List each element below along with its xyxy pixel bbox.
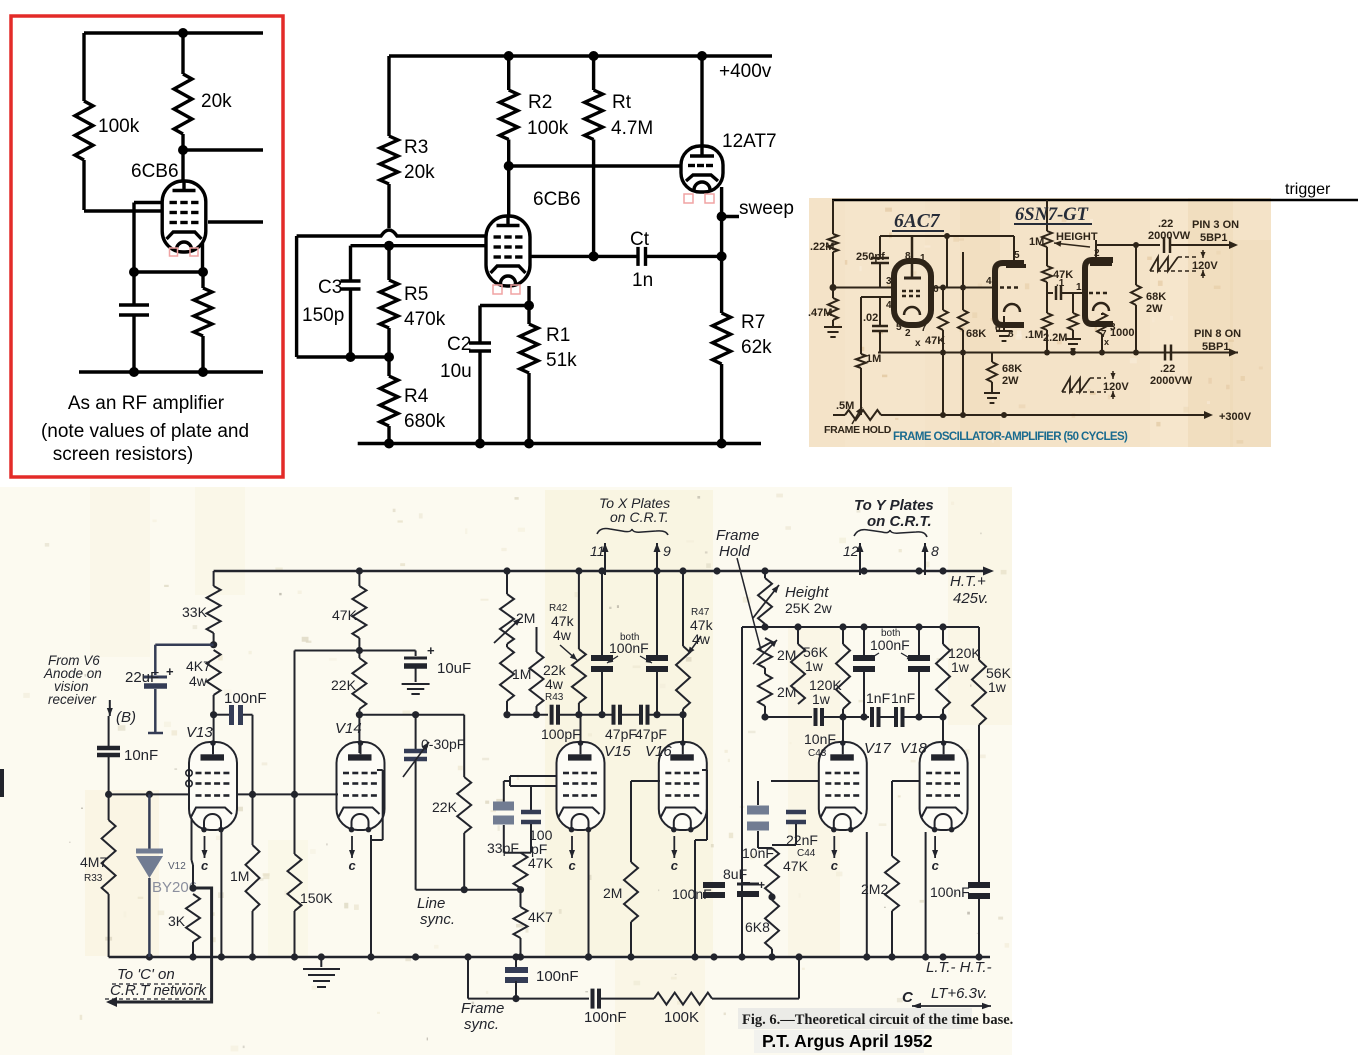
svg-text:LT+6.3v.: LT+6.3v. [931,985,988,1002]
svg-text:.22: .22 [1160,363,1175,375]
svg-text:22uF: 22uF [125,669,159,686]
svg-text:.22: .22 [1158,218,1173,230]
svg-text:R4: R4 [404,386,429,407]
svg-text:100nF: 100nF [870,637,910,653]
svg-text:2000VW: 2000VW [1148,230,1191,242]
svg-text:10uF: 10uF [437,660,471,677]
svg-text:1w: 1w [812,691,831,707]
svg-text:62k: 62k [741,337,772,358]
svg-text:Ct: Ct [630,229,650,250]
svg-text:x: x [915,338,921,349]
svg-text:9: 9 [663,543,671,559]
svg-text:4M7: 4M7 [80,854,107,870]
svg-text:6SN7-GT: 6SN7-GT [1015,205,1089,225]
svg-text:425v.: 425v. [953,590,989,607]
svg-text:20k: 20k [404,162,435,183]
svg-text:V14: V14 [335,720,362,737]
svg-text:1w: 1w [805,658,824,674]
svg-text:2000VW: 2000VW [1150,375,1193,387]
svg-text:11: 11 [590,543,605,559]
svg-text:receiver: receiver [48,692,97,707]
svg-text:6K8: 6K8 [745,919,770,935]
svg-text:c: c [349,858,357,873]
svg-text:100pF: 100pF [541,726,581,742]
svg-text:2W: 2W [1002,375,1019,387]
svg-text:1: 1 [1076,282,1082,293]
svg-text:12: 12 [843,543,859,559]
svg-text:L.T.- H.T.-: L.T.- H.T.- [926,959,992,976]
svg-text:100k: 100k [527,118,569,139]
svg-text:1nF: 1nF [891,690,915,706]
svg-text:4w: 4w [545,676,564,692]
svg-text:on C.R.T.: on C.R.T. [867,513,932,530]
svg-text:trigger: trigger [1285,181,1331,198]
svg-text:As an RF amplifier: As an RF amplifier [68,393,225,414]
svg-text:.1M: .1M [1025,329,1043,341]
svg-text:4: 4 [886,300,892,311]
svg-text:100nF: 100nF [609,640,649,656]
svg-text:.02: .02 [863,312,878,324]
svg-text:V15: V15 [604,743,631,760]
svg-text:1w: 1w [988,679,1007,695]
svg-text:150p: 150p [302,305,344,326]
svg-text:C: C [902,989,914,1006]
svg-text:Rt: Rt [612,92,632,113]
svg-text:150K: 150K [300,890,333,906]
svg-text:4: 4 [986,276,992,287]
svg-text:47pF: 47pF [605,726,637,742]
svg-text:.47M: .47M [808,307,832,319]
svg-text:470k: 470k [404,309,446,330]
svg-text:V12: V12 [168,861,186,872]
svg-text:4w: 4w [189,673,208,689]
svg-text:c: c [671,858,679,873]
svg-text:4w: 4w [553,627,572,643]
svg-text:51k: 51k [546,350,577,371]
svg-text:120V: 120V [1103,381,1129,393]
svg-text:R33: R33 [84,873,103,884]
svg-text:PIN 3 ON: PIN 3 ON [1192,219,1239,231]
svg-text:+: + [427,643,435,658]
svg-text:To 'C' on: To 'C' on [117,966,175,983]
svg-text:R5: R5 [404,284,428,305]
svg-text:33K: 33K [182,604,208,620]
svg-text:6: 6 [933,284,939,295]
svg-text:2.2M: 2.2M [1043,332,1067,344]
svg-text:Height: Height [785,584,829,601]
svg-text:P.T. Argus April 1952: P.T. Argus April 1952 [762,1031,933,1051]
svg-text:100nF: 100nF [930,884,970,900]
svg-text:100nF: 100nF [224,690,267,707]
svg-text:100k: 100k [98,116,140,137]
svg-text:V16: V16 [645,743,672,760]
svg-text:68K: 68K [1146,291,1166,303]
svg-text:4K7: 4K7 [186,658,211,674]
svg-text:2M: 2M [603,885,622,901]
svg-text:7: 7 [921,323,927,334]
svg-text:HEIGHT: HEIGHT [1056,231,1098,243]
svg-text:sync.: sync. [420,911,455,928]
svg-text:5BP1: 5BP1 [1200,232,1228,244]
svg-text:5: 5 [1014,250,1020,261]
svg-text:47pF: 47pF [635,726,667,742]
svg-text:2M: 2M [516,610,535,626]
svg-text:3: 3 [886,276,892,287]
svg-text:V17: V17 [864,740,891,757]
svg-text:FRAME HOLD: FRAME HOLD [824,424,892,436]
svg-text:2M2: 2M2 [861,881,888,897]
svg-text:68K: 68K [1002,363,1022,375]
svg-text:R43: R43 [545,692,564,703]
svg-text:R7: R7 [741,312,765,333]
svg-text:C3: C3 [318,277,342,298]
svg-text:22K: 22K [331,677,357,693]
svg-text:8: 8 [905,251,911,262]
svg-text:1M: 1M [230,868,249,884]
svg-text:2: 2 [1094,248,1100,259]
svg-text:c: c [831,858,839,873]
svg-text:4.7M: 4.7M [611,118,653,139]
svg-text:.1: .1 [1056,278,1065,289]
svg-text:47K: 47K [783,858,809,874]
svg-text:25K 2w: 25K 2w [785,600,833,616]
svg-text:.5M: .5M [836,400,854,412]
svg-text:47K: 47K [528,855,554,871]
svg-text:Frame: Frame [716,527,759,544]
svg-text:1n: 1n [632,270,653,291]
svg-text:Hold: Hold [719,543,751,560]
svg-text:sweep: sweep [739,198,794,219]
svg-text:1: 1 [920,253,926,264]
svg-text:+: + [758,878,765,892]
svg-text:6AC7: 6AC7 [894,211,941,232]
svg-text:10u: 10u [440,361,472,382]
svg-text:1M: 1M [1029,236,1044,248]
svg-text:C2: C2 [447,334,471,355]
svg-text:6: 6 [995,323,1001,334]
svg-text:12AT7: 12AT7 [722,131,777,152]
svg-text:680k: 680k [404,411,446,432]
svg-text:120V: 120V [1192,260,1218,272]
svg-text:0-30pF: 0-30pF [421,736,465,752]
svg-text:on C.R.T.: on C.R.T. [610,509,669,525]
svg-text:100nF: 100nF [584,1009,627,1026]
svg-text:(B): (B) [116,709,136,726]
svg-text:screen resistors): screen resistors) [53,444,193,465]
svg-text:47K: 47K [925,335,945,347]
svg-text:100nF: 100nF [672,886,712,902]
svg-text:8uF: 8uF [723,866,747,882]
svg-text:2M: 2M [777,684,796,700]
svg-text:c: c [932,858,940,873]
svg-text:To Y Plates: To Y Plates [854,497,934,514]
svg-text:20k: 20k [201,91,232,112]
svg-text:Frame: Frame [461,1000,504,1017]
svg-text:.22M: .22M [810,241,834,253]
svg-text:5: 5 [896,322,902,333]
svg-text:1nF: 1nF [866,690,890,706]
svg-text:22K: 22K [432,799,458,815]
svg-text:R3: R3 [404,137,428,158]
svg-text:(note values of plate and: (note values of plate and [41,421,249,442]
svg-text:2W: 2W [1146,303,1163,315]
svg-text:H.T.+: H.T.+ [950,573,986,590]
svg-text:10nF: 10nF [804,731,836,747]
svg-text:PIN 8 ON: PIN 8 ON [1194,328,1241,340]
svg-text:1w: 1w [951,659,970,675]
svg-text:+300V: +300V [1219,411,1252,423]
svg-text:100K: 100K [664,1009,699,1026]
svg-text:8: 8 [931,543,939,559]
svg-text:Fig. 6.—Theoretical circuit of: Fig. 6.—Theoretical circuit of the time … [742,1012,1013,1028]
svg-text:V13: V13 [186,724,213,741]
svg-text:6CB6: 6CB6 [533,189,581,210]
svg-text:R1: R1 [546,325,570,346]
svg-text:6CB6: 6CB6 [131,161,179,182]
svg-text:2: 2 [905,328,911,339]
svg-text:+400v: +400v [719,61,772,82]
svg-text:x: x [1104,337,1109,347]
svg-text:V18: V18 [900,740,927,757]
svg-text:10nF: 10nF [124,747,158,764]
svg-text:3K: 3K [168,913,186,929]
svg-text:100nF: 100nF [536,968,579,985]
svg-text:1M: 1M [866,353,881,365]
svg-text:+: + [166,664,174,679]
svg-text:c: c [201,858,209,873]
svg-text:FRAME OSCILLATOR-AMPLIFIER (: FRAME OSCILLATOR-AMPLIFIER (50 CYCLES) [893,431,1128,443]
svg-text:47K: 47K [332,607,358,623]
svg-text:5BP1: 5BP1 [1202,341,1230,353]
svg-text:R2: R2 [528,92,552,113]
svg-text:4K7: 4K7 [528,909,553,925]
svg-text:1000: 1000 [1110,327,1134,339]
svg-text:c: c [569,858,577,873]
svg-text:C43: C43 [808,748,827,759]
svg-text:sync.: sync. [464,1016,499,1033]
svg-text:Line: Line [417,895,445,912]
svg-text:68K: 68K [966,328,986,340]
